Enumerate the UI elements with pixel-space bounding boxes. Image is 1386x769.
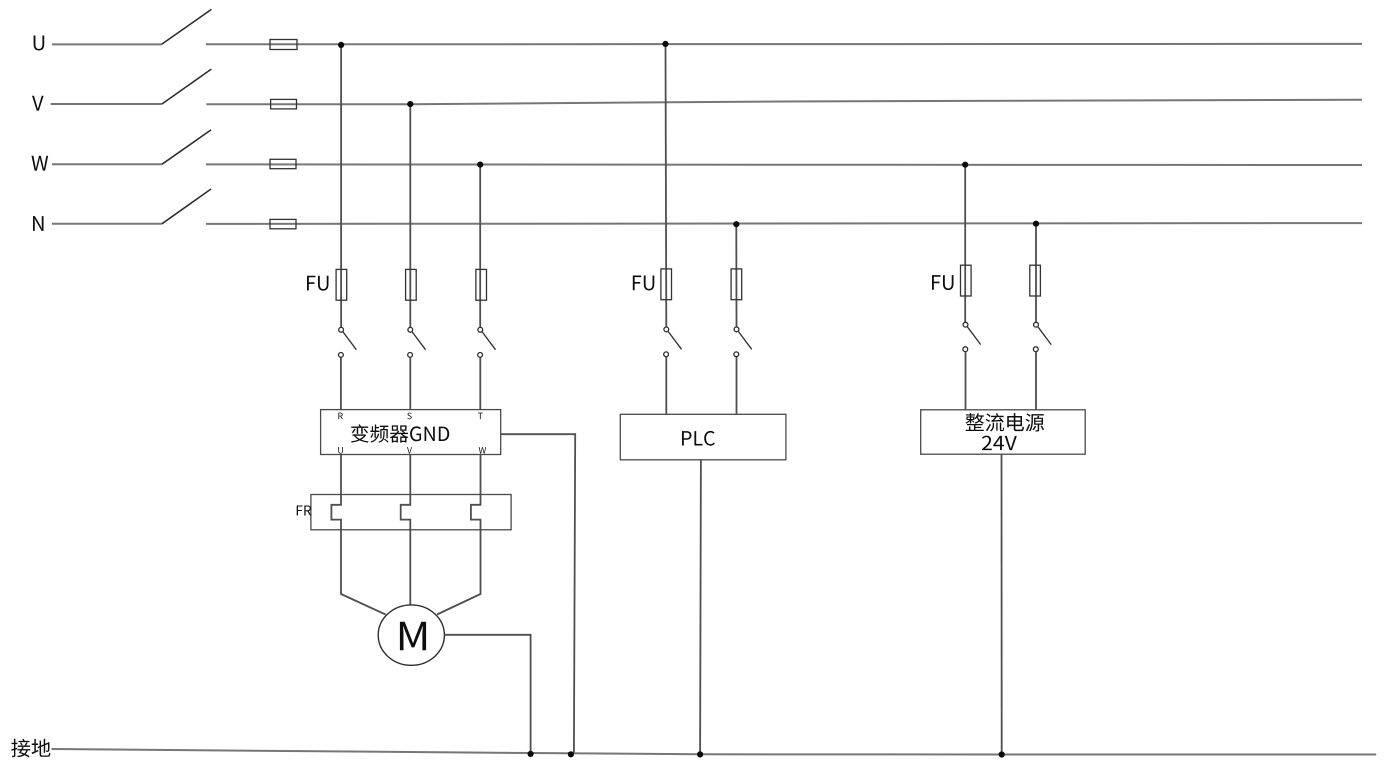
wire drop 7 (N to rectifier) bbox=[1035, 224, 1037, 410]
label W bbox=[31, 156, 48, 171]
fuse FU6 bbox=[961, 265, 972, 296]
label 24V bbox=[982, 436, 1017, 451]
label 接地 bbox=[11, 739, 50, 758]
pin W bbox=[479, 447, 486, 453]
wire phase W line bbox=[52, 163, 1362, 166]
label V bbox=[32, 96, 44, 111]
switch QS blade N bbox=[162, 189, 211, 224]
fuse FU2 bbox=[406, 269, 417, 300]
fuse U line bbox=[270, 40, 297, 50]
motor M1 circle bbox=[378, 605, 444, 665]
fuse FU5 bbox=[731, 269, 742, 300]
wire drop 6 (W to rectifier) bbox=[964, 164, 966, 409]
wire inverter U to motor (FR element 1) bbox=[331, 455, 385, 615]
switch S4 bbox=[664, 327, 669, 332]
wire inverter W to motor (FR element 3) bbox=[437, 455, 481, 615]
switch QS blade W bbox=[162, 130, 211, 164]
node N-drop5 bbox=[733, 221, 739, 227]
label U bbox=[34, 35, 45, 50]
wire drop 4 (U to PLC) bbox=[665, 44, 668, 414]
fuse V line bbox=[271, 99, 297, 109]
wire phase U line bbox=[52, 43, 1362, 46]
fuse W line bbox=[270, 159, 296, 168]
node ground-motor bbox=[528, 751, 534, 757]
node ground-PLC bbox=[697, 751, 703, 757]
pin T bbox=[478, 413, 483, 419]
node W-drop3 bbox=[477, 162, 483, 168]
wire drop 1 (U to inverter R) bbox=[340, 45, 342, 410]
node V-drop2 bbox=[407, 101, 413, 107]
node N-drop7 bbox=[1033, 221, 1039, 227]
node ground-rectifier bbox=[999, 751, 1005, 757]
wire drop 2 (V to inverter S) bbox=[409, 104, 411, 410]
wire inverter V to motor (FR element 2) bbox=[401, 455, 411, 607]
pin U bbox=[338, 447, 343, 454]
rectifier box U3 bbox=[921, 410, 1085, 454]
wire rectifier to ground bus bbox=[1001, 454, 1003, 754]
switch S3 bbox=[478, 327, 483, 332]
inverter box U1 bbox=[321, 410, 501, 455]
fuse FU4 bbox=[661, 269, 672, 300]
pin V bbox=[407, 447, 412, 453]
wire phase N line bbox=[52, 222, 1362, 225]
switch S7 bbox=[1034, 322, 1039, 327]
switch S5 bbox=[734, 327, 739, 332]
wire drop 5 (N to PLC) bbox=[735, 225, 737, 414]
fuse FU3 bbox=[476, 269, 487, 300]
label N bbox=[33, 216, 44, 231]
wire inverter GND to ground bus bbox=[501, 434, 576, 754]
switch S2 bbox=[408, 327, 413, 332]
switch S1 bbox=[339, 327, 344, 332]
fuse N line bbox=[270, 219, 296, 228]
label FU1 bbox=[307, 276, 329, 291]
node U-drop1 bbox=[338, 42, 344, 48]
wire drop 3 (W to inverter T) bbox=[479, 165, 481, 410]
label FR bbox=[297, 505, 312, 515]
label PLC bbox=[682, 431, 715, 446]
fuse FU1 bbox=[336, 269, 347, 300]
node W-drop6 bbox=[962, 162, 968, 168]
node U-drop4 bbox=[662, 41, 668, 47]
label FU2 bbox=[633, 276, 655, 291]
switch S6 bbox=[963, 322, 968, 327]
thermal relay FR box bbox=[311, 495, 511, 530]
pin R bbox=[338, 413, 342, 419]
fuse FU7 bbox=[1030, 265, 1041, 296]
switch QS blade V bbox=[162, 69, 211, 104]
label 整流电源 bbox=[966, 413, 1045, 431]
label FU3 bbox=[932, 275, 954, 290]
wire PLC to ground bus bbox=[699, 460, 702, 755]
switch QS blade U bbox=[162, 9, 212, 44]
wire phase V line bbox=[51, 100, 1362, 105]
motor label M bbox=[400, 622, 426, 651]
node ground-inverter bbox=[568, 751, 574, 757]
wire motor to ground bus bbox=[444, 635, 530, 755]
PLC box U2 bbox=[620, 414, 786, 460]
pin S bbox=[407, 413, 411, 420]
label 变频器GND bbox=[351, 424, 449, 442]
ground bus wire bbox=[52, 749, 1377, 755]
